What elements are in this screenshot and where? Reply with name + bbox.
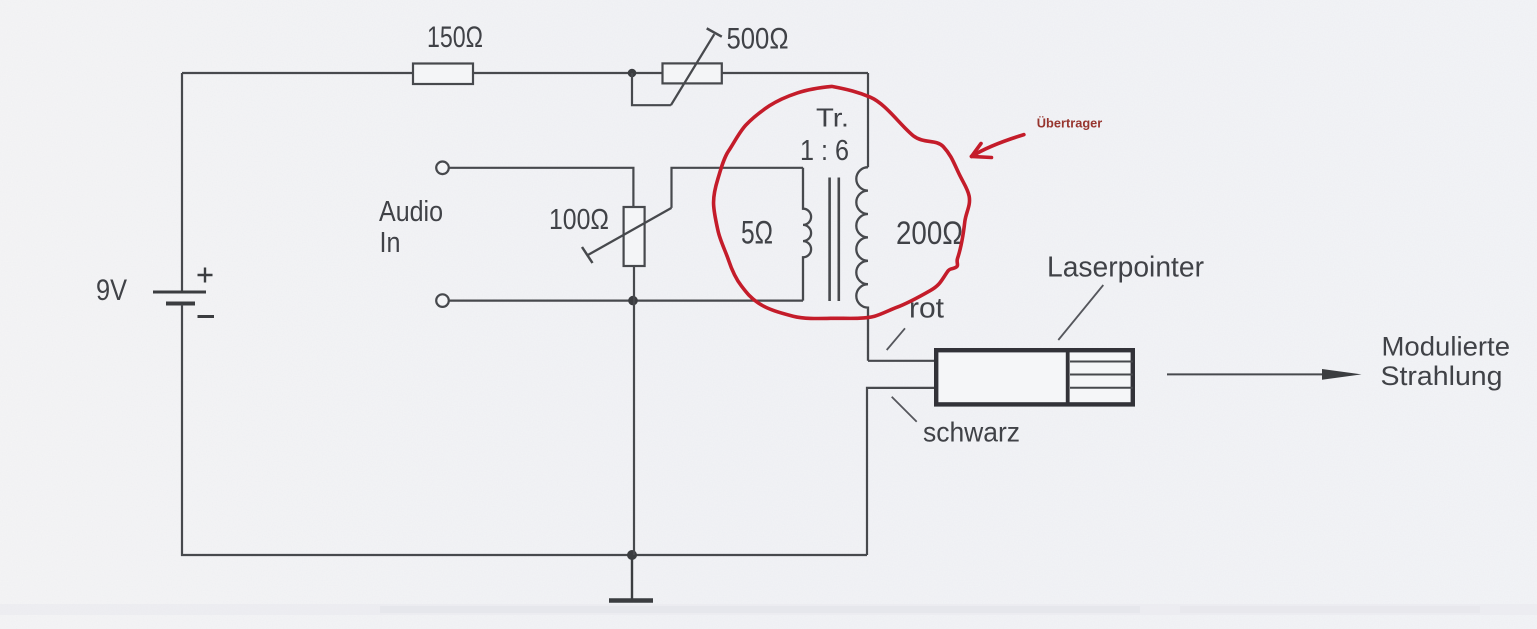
svg-text:200Ω: 200Ω [896, 215, 963, 251]
svg-text:5Ω: 5Ω [741, 215, 773, 251]
callout line schwarz [892, 397, 917, 422]
annotation red circle around transformer [714, 86, 970, 318]
wire left rail lower [181, 305, 183, 557]
wire pot bottom drop [633, 266, 635, 555]
transformer T1 primary winding 5 ohm [803, 168, 811, 301]
svg-text:500Ω: 500Ω [727, 22, 789, 55]
wire audio top [449, 168, 633, 207]
wire top rail [182, 72, 868, 74]
node audio bottom junction [628, 296, 638, 306]
laser pointer body [936, 350, 1133, 404]
wire bottom rail [181, 554, 867, 556]
label Audio In [379, 196, 443, 259]
wire rot to laser [868, 360, 934, 362]
svg-text:Strahlung: Strahlung [1381, 361, 1503, 391]
wire secondary top drop [867, 73, 869, 167]
svg-text:100Ω: 100Ω [549, 204, 609, 236]
output beam arrow [1167, 369, 1362, 380]
svg-text:Tr.: Tr. [816, 103, 849, 133]
transformer T1 core [830, 178, 839, 302]
battery B1 9V [153, 268, 214, 317]
scan noise band bottom [0, 604, 1537, 615]
ground [609, 555, 653, 601]
svg-text:1 : 6: 1 : 6 [800, 135, 849, 167]
svg-text:schwarz: schwarz [923, 417, 1020, 448]
svg-text:Modulierte: Modulierte [1382, 332, 1511, 362]
svg-text:Laserpointer: Laserpointer [1047, 252, 1204, 284]
callout line Laserpointer [1058, 285, 1103, 340]
callout line rot [887, 328, 905, 350]
wire 500 ohm wiper return [632, 73, 671, 105]
wire left rail upper [181, 73, 183, 291]
wire audio bottom to primary [449, 300, 803, 302]
svg-text:150Ω: 150Ω [427, 21, 483, 54]
wire schwarz to laser [867, 388, 934, 555]
label Modulierte Strahlung [1381, 332, 1511, 392]
wire wiper to primary top [672, 168, 804, 208]
terminal audio in top [436, 162, 449, 175]
svg-text:Übertrager: Übertrager [1037, 116, 1103, 131]
node top junction [628, 69, 637, 78]
svg-text:Audio: Audio [379, 196, 443, 228]
annotation red arrow [972, 135, 1024, 158]
resistor R2 500 ohm variable [663, 28, 722, 105]
svg-text:9V: 9V [96, 274, 127, 307]
potentiometer R3 100 ohm [582, 207, 672, 266]
resistor R1 150 ohm [413, 64, 473, 85]
terminal audio in bottom [436, 294, 449, 307]
transformer T1 secondary winding 200 ohm [856, 167, 868, 361]
node bottom junction [627, 550, 637, 560]
svg-text:In: In [380, 227, 401, 259]
